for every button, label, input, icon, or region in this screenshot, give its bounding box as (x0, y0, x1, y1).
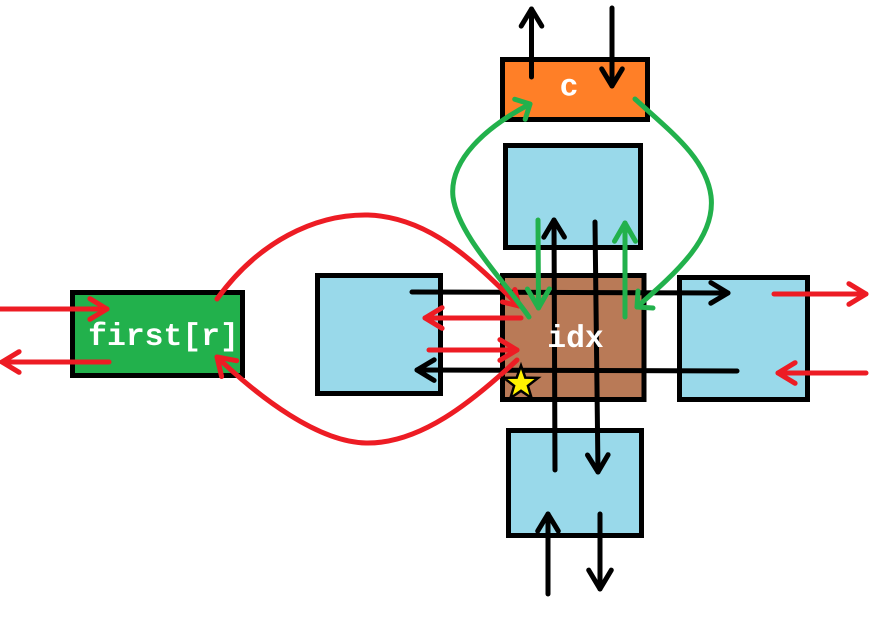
svg-text:c: c (560, 71, 579, 106)
svg-text:idx: idx (547, 322, 604, 357)
svg-text:first[r]: first[r] (88, 320, 239, 355)
